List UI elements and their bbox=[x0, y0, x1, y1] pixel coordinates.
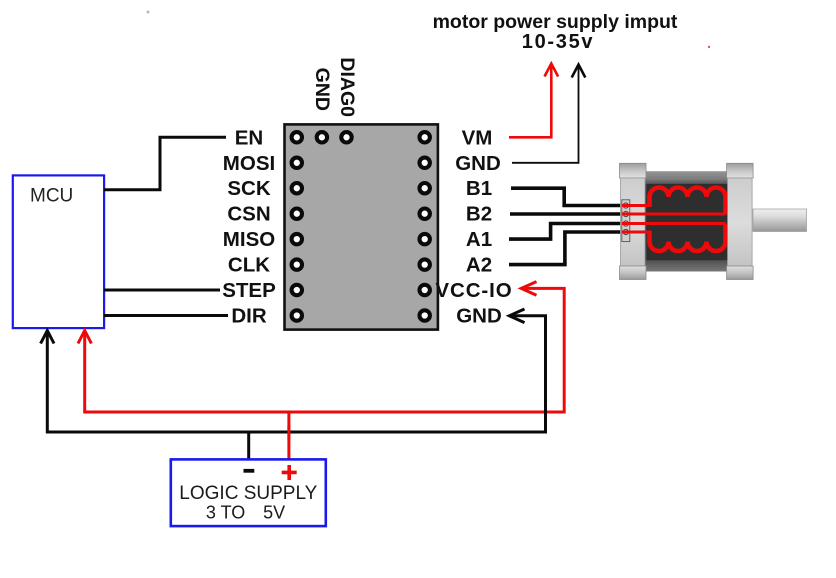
svg-text:GND: GND bbox=[456, 305, 502, 328]
svg-text:GND: GND bbox=[455, 152, 501, 175]
svg-text:5V: 5V bbox=[263, 502, 285, 522]
svg-text:VCC-IO: VCC-IO bbox=[435, 279, 512, 302]
svg-text:GND: GND bbox=[311, 68, 333, 111]
svg-text:VM: VM bbox=[462, 126, 493, 149]
svg-text:EN: EN bbox=[235, 126, 263, 149]
svg-text:DIR: DIR bbox=[231, 305, 267, 328]
svg-text:DIAG0: DIAG0 bbox=[336, 57, 358, 117]
svg-text:motor power supply imput: motor power supply imput bbox=[433, 11, 678, 33]
svg-text:B2: B2 bbox=[466, 203, 492, 226]
svg-text:CSN: CSN bbox=[227, 203, 270, 226]
svg-text:MCU: MCU bbox=[30, 186, 73, 207]
svg-text:LOGIC SUPPLY: LOGIC SUPPLY bbox=[179, 483, 317, 504]
svg-text:MISO: MISO bbox=[223, 228, 275, 251]
svg-text:MOSI: MOSI bbox=[223, 152, 275, 175]
svg-text:3 TO: 3 TO bbox=[206, 502, 245, 522]
svg-text:10-35v: 10-35v bbox=[522, 31, 594, 53]
svg-text:B1: B1 bbox=[466, 177, 492, 200]
svg-text:A2: A2 bbox=[466, 254, 492, 277]
svg-text:SCK: SCK bbox=[227, 177, 270, 200]
svg-text:STEP: STEP bbox=[222, 279, 276, 302]
svg-text:A1: A1 bbox=[466, 228, 492, 251]
svg-text:CLK: CLK bbox=[228, 254, 270, 277]
